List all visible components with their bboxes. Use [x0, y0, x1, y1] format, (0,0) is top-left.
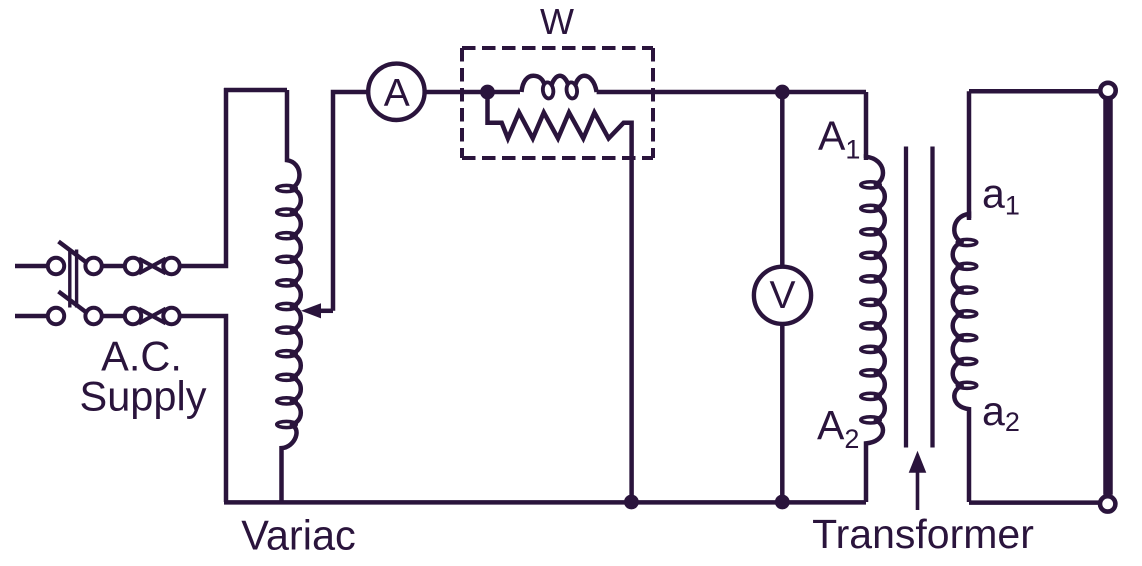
svg-text:Supply: Supply [80, 373, 207, 420]
svg-text:A2: A2 [817, 402, 859, 454]
switch S1 pole 2 left terminal [48, 308, 64, 324]
wire bottom rail [224, 500, 866, 505]
svg-text:A: A [384, 72, 410, 115]
wire fuse F1 to variac input [180, 88, 226, 266]
wire secondary top lead [967, 91, 972, 220]
fuse F1 right circle [163, 258, 179, 274]
wire pole1 to fuse F1 [102, 264, 125, 269]
svg-text:Variac: Variac [241, 512, 356, 559]
switch S1 pole 1 blade [59, 242, 87, 263]
voltmeter V [754, 267, 811, 324]
svg-text:A1: A1 [818, 113, 860, 165]
terminal top [1100, 83, 1115, 98]
transformer core [904, 147, 908, 448]
wire terminal bus [1103, 98, 1113, 495]
terminal bottom [1100, 496, 1115, 511]
fuse F2 cross link [139, 309, 166, 324]
switch S1 pole 2 blade [59, 292, 87, 313]
svg-text:W: W [540, 1, 574, 42]
wire wattmeter to transformer [597, 90, 866, 95]
node pressure coil to bottom rail [624, 495, 639, 510]
ammeter A [368, 64, 424, 120]
svg-text:a2: a2 [982, 388, 1020, 437]
wire wiper up to ammeter [333, 92, 367, 311]
node junction current coil [480, 85, 495, 100]
svg-text:a1: a1 [982, 171, 1020, 221]
wire variac top [224, 88, 287, 93]
fuse F2 left circle [125, 308, 141, 324]
switch S1 gang link [68, 250, 71, 308]
variac winding [287, 90, 299, 189]
switch S1 pole 2 right terminal [85, 308, 101, 324]
transformer primary winding [866, 157, 883, 185]
variac wiper arrow [301, 303, 321, 318]
wire ammeter to wattmeter [426, 90, 520, 95]
switch S1 pole 1 right terminal [85, 258, 101, 274]
svg-text:V: V [769, 274, 795, 317]
wattmeter current coil [522, 76, 597, 92]
fuse F2 right circle [163, 308, 179, 324]
wire secondary bottom to terminal [969, 500, 1100, 505]
switch S1 pole 1 left terminal [48, 258, 64, 274]
node voltmeter bottom [775, 495, 790, 510]
wattmeter pressure coil [488, 99, 632, 502]
wire voltmeter branch top [780, 92, 785, 266]
wire voltmeter branch bottom [780, 323, 785, 502]
wattmeter W dashed box [462, 48, 653, 158]
wire supply line 1 lead [15, 264, 48, 269]
wire fuse F2 down to bottom rail [180, 316, 226, 502]
transformer secondary winding [954, 214, 969, 243]
transformer pointer arrow [916, 471, 920, 510]
wire secondary top to terminal [969, 89, 1100, 94]
wire pole2 to fuse F2 [102, 314, 125, 319]
wire supply line 2 lead [15, 314, 48, 319]
fuse F1 cross link [139, 259, 166, 274]
node voltmeter top [775, 85, 790, 100]
wire top rail to primary [864, 92, 869, 160]
svg-text:Transformer: Transformer [812, 511, 1034, 557]
fuse F1 left circle [125, 258, 141, 274]
